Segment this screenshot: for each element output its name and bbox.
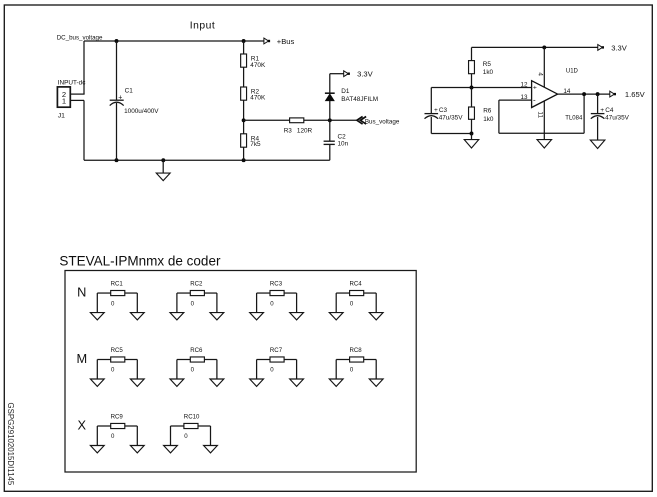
svg-text:X: X — [78, 418, 87, 433]
svg-text:U1D: U1D — [566, 68, 579, 74]
svg-text:14: 14 — [563, 88, 571, 95]
svg-text:120R: 120R — [297, 128, 313, 135]
svg-text:RC7: RC7 — [270, 347, 283, 354]
svg-text:RC5: RC5 — [111, 347, 124, 354]
svg-text:RC9: RC9 — [111, 414, 124, 421]
svg-text:3.3V: 3.3V — [611, 43, 628, 52]
svg-text:1k0: 1k0 — [483, 116, 494, 123]
svg-text:1: 1 — [62, 97, 66, 106]
svg-text:12: 12 — [520, 81, 528, 88]
svg-text:470K: 470K — [250, 95, 266, 102]
svg-text:47u/35V: 47u/35V — [605, 115, 630, 122]
svg-text:R5: R5 — [483, 61, 492, 68]
svg-text:RC3: RC3 — [270, 281, 283, 288]
svg-text:1.65V: 1.65V — [625, 90, 646, 99]
svg-text:47u/35V: 47u/35V — [439, 115, 464, 122]
svg-text:D1: D1 — [341, 88, 350, 95]
svg-text:BAT48JFILM: BAT48JFILM — [341, 96, 378, 103]
svg-text:13: 13 — [520, 94, 528, 101]
svg-text:Input: Input — [190, 21, 215, 32]
svg-text:+: + — [533, 84, 537, 91]
svg-text:RC4: RC4 — [350, 281, 363, 288]
svg-text:+Bus: +Bus — [277, 37, 295, 46]
svg-text:470K: 470K — [250, 62, 266, 69]
svg-text:0: 0 — [270, 300, 274, 307]
svg-text:J1: J1 — [58, 113, 65, 120]
svg-text:STEVAL-IPMnmx de coder: STEVAL-IPMnmx de coder — [59, 254, 221, 269]
svg-text:C3: C3 — [439, 107, 448, 114]
svg-text:+: + — [434, 107, 438, 114]
svg-text:C4: C4 — [605, 107, 614, 114]
svg-text:0: 0 — [270, 367, 274, 374]
svg-text:RC1: RC1 — [111, 281, 124, 288]
svg-text:7k5: 7k5 — [250, 141, 261, 148]
svg-text:N: N — [77, 285, 86, 300]
svg-text:M: M — [76, 351, 87, 366]
svg-text:3.3V: 3.3V — [357, 70, 374, 79]
svg-text:R6: R6 — [483, 107, 492, 114]
svg-text:C1: C1 — [125, 88, 134, 95]
svg-text:4: 4 — [537, 72, 544, 76]
svg-text:1k0: 1k0 — [483, 69, 494, 76]
svg-text:GSPG29102015DI1145: GSPG29102015DI1145 — [6, 403, 15, 486]
svg-text:+: + — [118, 94, 122, 101]
svg-text:Bus_voltage: Bus_voltage — [365, 119, 400, 126]
svg-text:-: - — [533, 95, 536, 104]
svg-text:DC_bus_voltage: DC_bus_voltage — [57, 35, 103, 42]
svg-text:10n: 10n — [338, 141, 349, 148]
svg-text:1000u/400V: 1000u/400V — [124, 108, 159, 115]
svg-text:TL084: TL084 — [565, 115, 583, 121]
svg-text:+: + — [600, 107, 604, 114]
svg-text:RC10: RC10 — [184, 414, 200, 421]
svg-text:RC6: RC6 — [190, 347, 203, 354]
svg-text:RC8: RC8 — [350, 347, 363, 354]
svg-text:INPUT-dc: INPUT-dc — [58, 80, 87, 87]
svg-text:11: 11 — [537, 111, 544, 118]
svg-text:RC2: RC2 — [190, 281, 203, 288]
svg-text:R3: R3 — [284, 128, 293, 135]
